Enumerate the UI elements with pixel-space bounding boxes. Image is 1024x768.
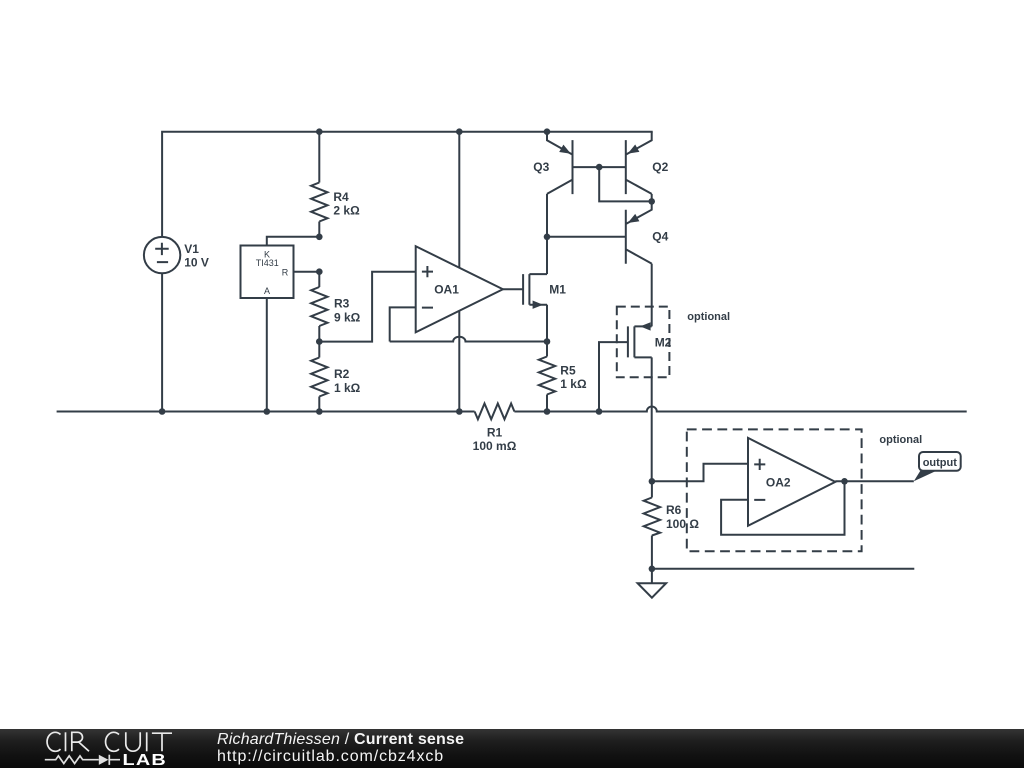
- svg-text:M1: M1: [549, 282, 566, 296]
- svg-text:optional: optional: [879, 434, 922, 446]
- svg-text:output: output: [923, 457, 958, 469]
- ground symbol: [638, 583, 667, 598]
- wire V1 bottom stub: [161, 273, 163, 411]
- wire OA2 feedback loop: [721, 481, 844, 535]
- resistor R3: [318, 272, 320, 342]
- wire lower ground spur: [652, 568, 914, 570]
- wire OA1 positive supply: [458, 132, 460, 268]
- wire Q4 collector to M2 source: [651, 264, 653, 327]
- wire Q3 collector vertical: [546, 194, 548, 237]
- node R6 bottom: [649, 566, 656, 573]
- node M1 source R5: [544, 338, 551, 345]
- svg-text:Q2: Q2: [652, 160, 668, 174]
- svg-text:R: R: [282, 268, 289, 278]
- resistor R2: [318, 342, 320, 412]
- wire OA1 noninverting input from R3/R2 node: [319, 272, 415, 342]
- wire OA2 noninverting input from R6 top node: [652, 464, 748, 482]
- node OA1 V- ground: [456, 408, 463, 415]
- svg-text:OA1: OA1: [434, 282, 459, 296]
- wire M1 drain to Q3 collector node: [546, 237, 548, 274]
- svg-text:Q3: Q3: [533, 160, 549, 174]
- node M2 gate ground: [596, 408, 603, 415]
- svg-text:R2: R2: [334, 367, 350, 381]
- wire M2 drain down across rail to R6 node: [651, 357, 653, 481]
- svg-text:TI431: TI431: [256, 258, 279, 268]
- footer bar: [0, 729, 1024, 768]
- op-amp OA2: [748, 438, 835, 526]
- node R4 top: [316, 128, 323, 135]
- wire Q4 base from Q3 collector node: [547, 236, 626, 238]
- TL431 pin labels: [256, 250, 289, 297]
- node A ground: [264, 408, 271, 415]
- wire bottom ground rail right with hop over M2 drain: [514, 407, 966, 412]
- svg-text:2 kΩ: 2 kΩ: [333, 204, 360, 218]
- wire A pin of U1 to ground rail: [266, 298, 268, 412]
- svg-text:R5: R5: [560, 363, 576, 377]
- svg-text:optional: optional: [687, 311, 730, 323]
- node R2 ground: [316, 408, 323, 415]
- resistor R4: [318, 132, 320, 237]
- wire R pin of U1: [294, 271, 320, 273]
- node base rail: [596, 164, 603, 171]
- wire Q2 collector stub: [651, 194, 653, 202]
- label R2 value: [334, 367, 361, 395]
- TL431 box U1: [241, 246, 294, 299]
- node R3 R2 junction: [316, 338, 323, 345]
- node R pin: [316, 268, 323, 275]
- label R6 value: [666, 503, 699, 531]
- output flag: [914, 452, 961, 481]
- wire top rail: [162, 132, 653, 237]
- pnp transistor Q4: [626, 201, 652, 263]
- svg-text:1 kΩ: 1 kΩ: [560, 377, 587, 391]
- wire K pin of U1 to R4 node: [267, 237, 320, 246]
- wire OA1 output to M1 gate: [503, 288, 523, 290]
- svg-text:R1: R1: [487, 425, 503, 439]
- svg-text:R4: R4: [333, 190, 349, 204]
- label R1 value: [473, 425, 517, 453]
- wire OA1 negative supply: [458, 311, 460, 412]
- wire OA2 output: [835, 480, 914, 482]
- svg-text:Q4: Q4: [652, 230, 668, 244]
- voltage source V1: [144, 237, 180, 273]
- svg-text:LAB: LAB: [123, 751, 167, 768]
- wire base node riser to Q2 collector node: [599, 167, 652, 201]
- svg-text:100 Ω: 100 Ω: [666, 517, 699, 531]
- resistor R5: [546, 342, 548, 412]
- wire ground stub: [651, 569, 653, 583]
- op-amp OA1: [416, 246, 503, 332]
- node V1 ground: [159, 408, 166, 415]
- node R6 top: [649, 478, 656, 485]
- wire M2 gate net from ground rail: [599, 342, 628, 411]
- svg-text:R6: R6: [666, 503, 682, 517]
- svg-text:V1: V1: [184, 242, 199, 256]
- node OA2 output feedback: [841, 478, 848, 485]
- label R3 value: [334, 297, 361, 325]
- svg-text:R3: R3: [334, 297, 350, 311]
- wire OA1 inverting input: [390, 307, 416, 341]
- svg-text:A: A: [264, 286, 270, 296]
- dashed optional box around OA2: [687, 429, 862, 551]
- nmos M1: [523, 274, 547, 309]
- wire OA1 inverting to M1 source node with hop: [390, 337, 547, 342]
- pmos M2: [628, 322, 652, 357]
- wire M1 source to R5 node: [546, 305, 548, 342]
- node OA1 V+ top: [456, 128, 463, 135]
- svg-text:10 V: 10 V: [184, 256, 209, 270]
- pnp transistor Q2: [626, 132, 652, 194]
- label R4 value: [333, 190, 360, 218]
- dashed optional box around M2: [617, 307, 670, 378]
- svg-text:100 mΩ: 100 mΩ: [473, 439, 517, 453]
- svg-text:1 kΩ: 1 kΩ: [334, 381, 361, 395]
- CircuitLab logo: [0, 729, 200, 768]
- label V1 value: [184, 242, 209, 270]
- resistor R1: [475, 404, 515, 420]
- node Q2 collector Q4 emitter: [648, 198, 655, 205]
- wire bottom ground rail left: [57, 411, 475, 413]
- svg-text:OA2: OA2: [766, 476, 791, 490]
- node Q3 emitter top: [544, 128, 551, 135]
- resistor R6: [651, 481, 653, 569]
- node K: [316, 234, 323, 241]
- node Q3 collector Q4 base: [544, 234, 551, 241]
- node R5 ground: [544, 408, 551, 415]
- wire base rail Q3 to Q2: [573, 166, 626, 168]
- svg-text:9 kΩ: 9 kΩ: [334, 310, 361, 324]
- pnp transistor Q3: [547, 132, 573, 194]
- label R5 value: [560, 363, 587, 391]
